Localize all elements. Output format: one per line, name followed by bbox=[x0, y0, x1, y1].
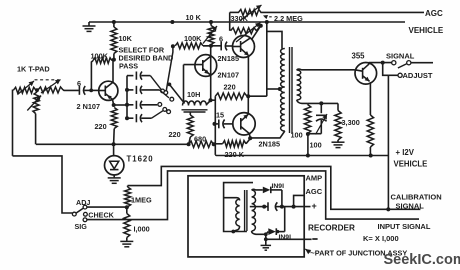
wire: Q1 emitter down bbox=[247, 56, 249, 96]
node: T1620 top bbox=[112, 142, 116, 146]
transistor Q1 2N185 bbox=[233, 36, 255, 58]
svg-text:AMP: AMP bbox=[306, 174, 323, 183]
switch ADJ/CHECK/SIG bbox=[83, 205, 87, 209]
node: 10K pot bottom bbox=[209, 44, 213, 48]
wire: plus output line bbox=[250, 206, 266, 208]
svg-text:ADJUST: ADJUST bbox=[403, 71, 433, 80]
svg-text:100: 100 bbox=[291, 131, 303, 140]
resistor 220 (Q3 emitter) bbox=[111, 108, 117, 129]
capacitor 15 + node bbox=[213, 122, 217, 126]
svg-text:T1620: T1620 bbox=[127, 155, 154, 164]
resistor 1,000 bbox=[126, 207, 128, 213]
transistor Q3 2N107 (input) bbox=[99, 81, 118, 100]
svg-text:K= X I,000: K= X I,000 bbox=[363, 234, 399, 243]
wire: T2 secondary bottom to D2 bbox=[252, 231, 266, 234]
band-pass capacitor bank bus bbox=[126, 76, 128, 119]
transistor Q4 2N185 (lower) bbox=[233, 113, 255, 135]
node: 100 bottom bbox=[306, 132, 310, 136]
minus terminal glyph bbox=[312, 238, 317, 240]
node: 10K bottom / 100K left bbox=[112, 58, 116, 62]
svg-text:+: + bbox=[312, 201, 317, 211]
node: Q4 emitter / 220K / T1 bbox=[248, 136, 252, 140]
wire: feedback line L1 bbox=[36, 143, 189, 145]
wire: node down to ADJUST wire bbox=[383, 63, 389, 76]
node: select bus top bbox=[171, 44, 175, 48]
transistor Q5 355 bbox=[355, 63, 377, 85]
svg-text:ADJ: ADJ bbox=[76, 198, 90, 207]
node: 680 left bbox=[187, 142, 191, 146]
pointer: part of junction assy bbox=[305, 249, 311, 254]
svg-text:10K: 10K bbox=[119, 34, 133, 43]
node: T-pad junction bbox=[35, 88, 39, 92]
wire: Q5 collector to switch bbox=[369, 62, 392, 64]
capacitor 6 (Q1 base) bbox=[220, 42, 222, 51]
capacitor C-band4 bbox=[127, 117, 133, 119]
svg-text:INPUT SIGNAL: INPUT SIGNAL bbox=[378, 222, 431, 231]
resistor 10K (fixed, left) bbox=[113, 22, 115, 27]
svg-text:15: 15 bbox=[216, 111, 224, 120]
wire: secondary top node bbox=[308, 102, 338, 104]
svg-text:PASS: PASS bbox=[119, 62, 138, 71]
svg-text:6: 6 bbox=[219, 35, 223, 44]
svg-text:3,300: 3,300 bbox=[342, 118, 360, 127]
node: T2 primary bottom bbox=[231, 230, 235, 234]
resistor 330K (variable) bbox=[239, 9, 262, 15]
svg-text:100K: 100K bbox=[91, 52, 109, 61]
selector wiper arm bbox=[166, 46, 173, 90]
ground (1,000) bbox=[120, 240, 133, 242]
node: Q3 emitter bbox=[112, 103, 116, 107]
node: minus node bbox=[264, 237, 268, 241]
resistor 220 (under 10H) bbox=[189, 113, 191, 116]
wire: transformer T1 drop bbox=[266, 22, 268, 96]
ground (3,300) bbox=[332, 141, 345, 143]
resistor 100K (horizontal, top) bbox=[175, 43, 203, 49]
T-pad: pot R-B bbox=[38, 87, 63, 93]
svg-text:220: 220 bbox=[95, 122, 107, 131]
node: 680 right bbox=[212, 142, 216, 146]
wire: AGC tap up/right bbox=[294, 195, 305, 206]
node: AGC tap bbox=[292, 205, 296, 209]
wire: main vertical x215 bbox=[214, 96, 216, 155]
node: 10K top bbox=[112, 20, 116, 24]
node: arm tap bbox=[168, 83, 172, 87]
wire: T-pad left leg bbox=[12, 90, 15, 156]
node: 6pF cap top bbox=[170, 20, 174, 24]
inductor 10H bbox=[183, 101, 207, 106]
svg-text:2N107: 2N107 bbox=[218, 71, 240, 80]
svg-text:220: 220 bbox=[169, 130, 181, 139]
wire: T1 secondary bottom bbox=[297, 100, 308, 103]
node: cap 100 top bbox=[319, 101, 323, 105]
svg-text:SIG: SIG bbox=[75, 222, 88, 231]
svg-text:1MEG: 1MEG bbox=[131, 196, 152, 205]
wire: Q2 base drop to 10H bbox=[184, 65, 185, 104]
svg-text:SeekIC.com: SeekIC.com bbox=[384, 252, 460, 268]
svg-text:100K: 100K bbox=[184, 34, 202, 43]
node: cap left bbox=[262, 205, 266, 209]
node: D2 anode bbox=[264, 232, 268, 236]
node: collector node bbox=[381, 61, 385, 65]
node: 10K pot top bbox=[209, 20, 213, 24]
svg-text:IN9I: IN9I bbox=[272, 183, 285, 190]
transformer T2 primary bbox=[236, 199, 240, 226]
recorder box bbox=[188, 176, 304, 257]
wire: T2 secondary top to diode bbox=[252, 188, 263, 191]
svg-text:10 K: 10 K bbox=[186, 13, 202, 22]
node/tap: T1 primary tap bbox=[267, 88, 281, 90]
wire: Q4 emitter to node bbox=[248, 134, 251, 139]
svg-text:100: 100 bbox=[310, 141, 322, 150]
svg-text:I,000: I,000 bbox=[134, 225, 150, 234]
svg-text:CHECK: CHECK bbox=[88, 211, 114, 220]
resistor 3,300 bbox=[337, 103, 339, 110]
svg-text:RECORDER: RECORDER bbox=[308, 223, 355, 232]
svg-text:2.2 MEG: 2.2 MEG bbox=[274, 14, 303, 23]
transformer T1 secondary winding bbox=[297, 70, 301, 100]
svg-text:2N185: 2N185 bbox=[218, 54, 240, 63]
svg-text:355: 355 bbox=[352, 52, 366, 61]
wire: arm tap to 10H left bbox=[169, 84, 183, 101]
svg-text:330K: 330K bbox=[231, 14, 249, 23]
wire: T1 secondary top to Q5 base bbox=[297, 68, 355, 71]
resistor 680 bbox=[189, 141, 214, 147]
T-pad: pot R-C (shunt) bbox=[33, 92, 40, 114]
wire: D1 to plus line bbox=[281, 190, 283, 207]
svg-text:AGC: AGC bbox=[425, 9, 443, 18]
capacitor C-band1 bbox=[127, 75, 133, 77]
node: transformer T1 drop bbox=[265, 20, 269, 24]
node: 220 right / Q1 emitter bbox=[246, 94, 250, 98]
diode T1620 bbox=[113, 144, 115, 155]
wire: pot R-C to L1 bbox=[35, 114, 37, 145]
wire: calibration drop bbox=[387, 75, 389, 209]
wire: Q4 collector up bbox=[247, 96, 249, 114]
wire: Q3 collector up bbox=[112, 60, 114, 83]
dashed gang link bbox=[35, 79, 60, 81]
svg-text:6: 6 bbox=[77, 79, 81, 88]
wire: minus line bbox=[265, 234, 267, 239]
diode D1 1N91 bbox=[263, 187, 271, 194]
wire AGC line bbox=[230, 11, 239, 13]
svg-text:2 N107: 2 N107 bbox=[77, 102, 101, 111]
resistor 220K bbox=[215, 143, 222, 145]
ground (chassis, top left) bbox=[88, 22, 90, 26]
capacitor C-band3 bbox=[127, 104, 133, 106]
svg-text:220: 220 bbox=[224, 83, 236, 92]
svg-text:680: 680 bbox=[194, 135, 206, 144]
node: rail tap 2 bbox=[369, 154, 373, 158]
node: rail tap bbox=[306, 154, 310, 158]
wire VEHICLE bus (top horizontal) bbox=[89, 21, 405, 23]
svg-text:2N185: 2N185 bbox=[259, 140, 281, 149]
node: Q2 emitter / 10H bbox=[209, 98, 213, 102]
diode D2 1N91 bbox=[268, 228, 276, 235]
ground (T1620) bbox=[108, 177, 121, 179]
resistor 10K pot (variable) bbox=[208, 26, 214, 45]
svg-text:10H: 10H bbox=[187, 90, 200, 99]
wire: rail left segment to switch bbox=[13, 156, 73, 213]
wire: Q3 emitter down bbox=[112, 99, 113, 105]
svg-text:+ I2V: + I2V bbox=[396, 148, 415, 157]
wire: T2 primary top bbox=[224, 198, 240, 201]
node: base node bbox=[89, 89, 93, 93]
switch SIGNAL/ADJUST bbox=[392, 61, 396, 65]
T-pad: pot R-A bbox=[13, 87, 36, 93]
wire: down through Q2 bbox=[210, 46, 212, 100]
resistor Q5 emitter bbox=[369, 82, 371, 115]
wire: AGC line down to feedback pot bbox=[229, 12, 231, 30]
wire: T-pad right to cap bbox=[63, 89, 79, 92]
wire: T1 primary bottom to Q4 emitter node bbox=[250, 131, 285, 138]
resistor 220 (collector load, horizontal) bbox=[215, 93, 247, 99]
wire: AMP line (1MEG top to calibration signal) bbox=[128, 166, 421, 209]
wire: 100K left drop bbox=[91, 61, 93, 91]
wire: +12V rail bbox=[215, 154, 388, 157]
capacitor (recorder) bbox=[267, 202, 269, 211]
svg-text:AGC: AGC bbox=[306, 187, 323, 196]
transformer T2 core bbox=[244, 190, 246, 231]
capacitor 6 (input) bbox=[78, 86, 80, 95]
svg-text:VEHICLE: VEHICLE bbox=[394, 159, 428, 168]
transformer T2 secondary bbox=[252, 190, 256, 231]
node: cap right bbox=[280, 205, 284, 209]
node: calibration junction bbox=[386, 207, 390, 211]
wire: 10H right to node bbox=[207, 101, 211, 105]
wire: AGC/input-signal line bbox=[87, 171, 419, 220]
resistor 100 (T1 secondary load) bbox=[304, 105, 310, 134]
transformer T2 frame bbox=[224, 183, 253, 232]
wire: D2 up to plus line bbox=[284, 207, 286, 232]
node: ADJ junction bbox=[125, 205, 129, 209]
resistor feedback pot (variable) bbox=[231, 28, 257, 34]
capacitor C-band2 bbox=[127, 89, 133, 91]
dashed pointer + label 2.2 MEG bbox=[265, 16, 274, 18]
wire: ADJ line bbox=[87, 206, 127, 208]
transistor Q2 2N107 bbox=[195, 55, 217, 77]
capacitor 100 (variable) bbox=[320, 103, 322, 113]
resistor 1MEG bbox=[127, 186, 129, 187]
svg-text:1K T-PAD: 1K T-PAD bbox=[17, 65, 50, 74]
selector contacts bbox=[150, 76, 161, 90]
svg-text:SIGNAL: SIGNAL bbox=[386, 52, 415, 61]
transformer T1 core bbox=[289, 47, 291, 133]
resistor 100K (left) bbox=[93, 58, 112, 64]
node: pot to collector bbox=[259, 24, 263, 28]
svg-text:SIGNAL: SIGNAL bbox=[396, 202, 425, 211]
svg-text:CALIBRATION: CALIBRATION bbox=[391, 193, 442, 202]
ground (recorder) bbox=[265, 239, 267, 245]
svg-text:220 K: 220 K bbox=[225, 150, 245, 159]
svg-text:VEHICLE: VEHICLE bbox=[409, 26, 444, 35]
transformer T1 primary winding bbox=[281, 49, 285, 132]
